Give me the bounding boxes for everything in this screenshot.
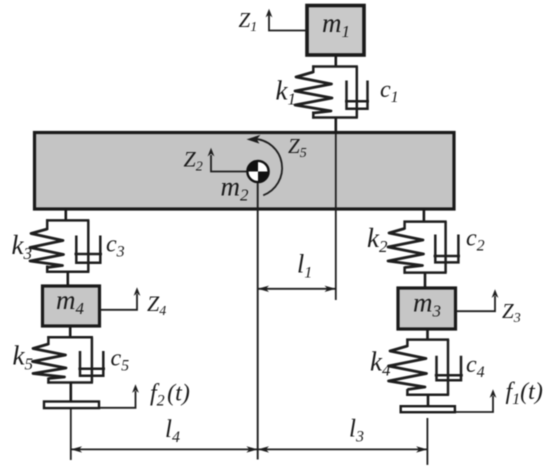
svg-text:c1: c1 [380, 77, 399, 106]
svg-text:l4: l4 [165, 416, 180, 446]
svg-text:Z1: Z1 [239, 8, 258, 35]
beam m2 [35, 133, 455, 210]
mass m1 [307, 6, 364, 56]
damper c3 [75, 220, 103, 271]
mass m3 [398, 288, 456, 330]
arrow Z1 [239, 8, 308, 35]
svg-text:c5: c5 [111, 346, 130, 375]
svg-text:f2(t): f2(t) [150, 381, 190, 410]
extension line below right base [426, 418, 428, 465]
rod beam to k3c3 [65, 209, 68, 220]
rod k5c5 to base plate f2 [70, 383, 73, 402]
damper c4 [435, 340, 463, 395]
mass m4 [43, 285, 100, 326]
base plate left [44, 402, 99, 409]
rod k4c4 to base plate f1 [427, 395, 430, 406]
svg-text:k1: k1 [276, 76, 296, 109]
svg-text:k2: k2 [367, 223, 388, 256]
svg-text:Z3: Z3 [502, 299, 521, 326]
frame k3c3 [46, 219, 89, 272]
rod m3 to k4c4 [426, 329, 429, 340]
base plate right [401, 406, 455, 412]
dimension l1 [258, 250, 336, 293]
rod m4 to k5c5 [69, 326, 72, 337]
centerline below CG [257, 183, 259, 460]
frame k1c1 [312, 65, 358, 118]
damper c1 [345, 67, 369, 118]
spring k1 [295, 72, 332, 113]
arrow Z5 (rotation arc) [247, 134, 307, 195]
spring k3 [30, 229, 64, 268]
rod beam to k2c2 [423, 209, 426, 222]
spring k5 [33, 344, 67, 379]
svg-text:k4: k4 [370, 347, 391, 380]
damper c5 [78, 337, 105, 382]
spring k4 [389, 346, 427, 390]
arrow f1(t) [455, 379, 543, 412]
dimension l4 [71, 416, 258, 453]
frame k4c4 [406, 339, 449, 396]
spring k2 [388, 229, 424, 268]
dimension l3 [258, 416, 428, 453]
rod k2c2 to m3 [424, 273, 427, 288]
svg-text:Z4: Z4 [147, 291, 166, 319]
svg-text:k3: k3 [12, 230, 32, 263]
center of gravity m2 [247, 161, 268, 182]
extension line below left base [70, 408, 72, 460]
frame k5c5 [47, 336, 93, 383]
arrow Z2 [184, 147, 248, 175]
svg-text:l1: l1 [297, 250, 312, 282]
svg-text:c4: c4 [466, 352, 485, 381]
extension line through beam at k1 column [335, 134, 337, 300]
svg-text:f1(t): f1(t) [506, 379, 543, 408]
damper c2 [434, 222, 460, 273]
rod m1 to k1c1 [334, 55, 337, 67]
arrow f2(t) [99, 381, 190, 410]
arrow Z4 [100, 287, 167, 319]
arrow Z3 [456, 289, 521, 326]
rod k3c3 to m4 [67, 272, 70, 286]
svg-text:c3: c3 [106, 232, 125, 261]
frame k2c2 [404, 221, 447, 274]
svg-text:c2: c2 [466, 226, 485, 255]
svg-text:k5: k5 [13, 341, 33, 374]
svg-text:l3: l3 [349, 416, 364, 446]
rod k1c1 to beam [334, 118, 337, 133]
